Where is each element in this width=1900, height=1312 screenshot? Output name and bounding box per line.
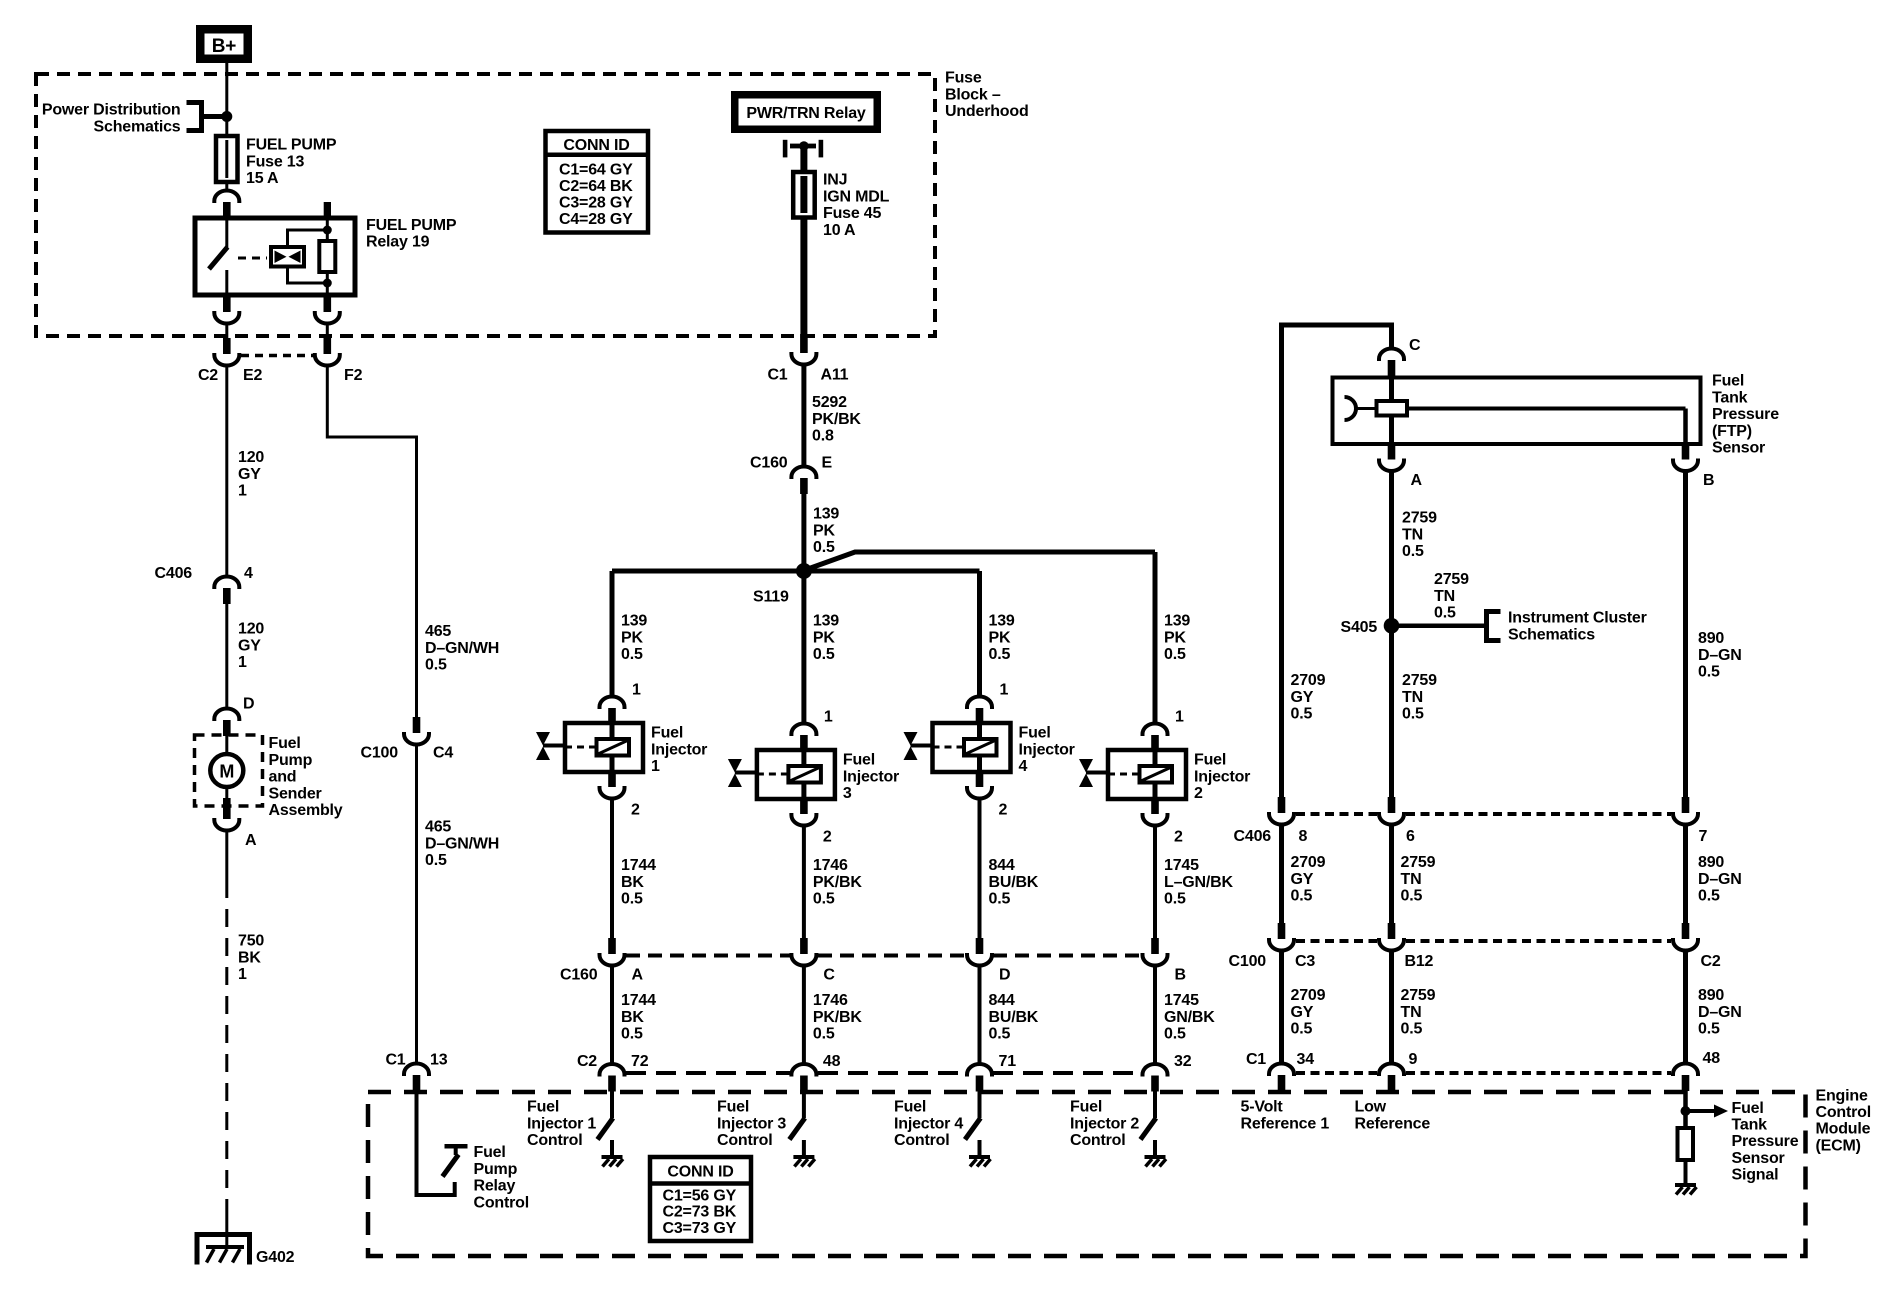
svg-text:72: 72 <box>631 1053 649 1070</box>
wire 5292 PK/BK <box>801 365 806 467</box>
svg-text:Pump: Pump <box>474 1161 518 1178</box>
svg-text:C160: C160 <box>560 967 598 984</box>
svg-text:C100: C100 <box>361 745 399 762</box>
wire 890 D-GN C100 to ECM <box>1683 952 1688 1065</box>
wire 139 PK branch to injector 1 <box>610 571 615 697</box>
fuel pump relay control driver switch <box>445 1144 468 1149</box>
relay B+ stub terminal <box>324 202 331 219</box>
svg-text:C406: C406 <box>1234 828 1272 845</box>
svg-text:0.5: 0.5 <box>989 891 1011 908</box>
battery feed B+ box <box>196 25 252 63</box>
svg-text:D–GN/WH: D–GN/WH <box>425 640 499 657</box>
svg-text:GY: GY <box>1291 871 1314 888</box>
wire 1745 injector 2 to C160 <box>1153 825 1157 938</box>
svg-text:0.5: 0.5 <box>621 891 643 908</box>
svg-text:D–GN: D–GN <box>1698 647 1742 664</box>
svg-text:TN: TN <box>1401 1004 1422 1021</box>
fuel injector 2 control driver inside ECM <box>1153 1091 1157 1118</box>
FTP sensor internal element <box>1345 397 1357 420</box>
wire 465 D-GN/WH segment 2 <box>415 745 418 1062</box>
wire S405 to instrument cluster <box>1392 623 1485 628</box>
svg-text:139: 139 <box>1164 613 1190 630</box>
svg-text:0.5: 0.5 <box>425 657 447 674</box>
svg-text:C2: C2 <box>577 1053 597 1070</box>
svg-text:0.5: 0.5 <box>1434 605 1456 622</box>
svg-text:CONN ID: CONN ID <box>667 1164 733 1181</box>
svg-text:PK: PK <box>989 629 1011 646</box>
connector injector 4 pin 2 <box>976 771 984 787</box>
svg-text:C160: C160 <box>750 455 788 472</box>
svg-text:Sender: Sender <box>269 785 322 802</box>
svg-text:Schematics: Schematics <box>1508 626 1595 643</box>
svg-text:1745: 1745 <box>1164 857 1199 874</box>
connector ECM pin 48 <box>791 1064 816 1077</box>
connector ECM C2 pin 48 <box>1673 1064 1698 1077</box>
svg-text:120: 120 <box>238 621 264 638</box>
svg-text:2759: 2759 <box>1401 854 1436 871</box>
fuel injector 3 <box>801 750 806 799</box>
svg-text:GY: GY <box>1291 689 1314 706</box>
svg-text:C100: C100 <box>1229 953 1267 970</box>
svg-text:B: B <box>1703 472 1714 489</box>
svg-text:1: 1 <box>1175 709 1184 726</box>
svg-text:2759: 2759 <box>1401 987 1436 1004</box>
fuel injector 1 <box>610 723 615 772</box>
wire 1746 C160 to ECM <box>802 966 806 1065</box>
connector injector 3 pin 1 <box>791 724 816 737</box>
svg-text:Fuel: Fuel <box>527 1099 559 1116</box>
svg-text:Pressure: Pressure <box>1712 406 1779 423</box>
connector injector 4 pin 1 <box>967 697 992 710</box>
svg-text:PK: PK <box>813 522 835 539</box>
svg-text:1: 1 <box>238 483 247 500</box>
svg-text:L–GN/BK: L–GN/BK <box>1164 874 1233 891</box>
svg-text:Low: Low <box>1355 1099 1387 1116</box>
ground fuel injector 2 control <box>1145 1155 1166 1159</box>
svg-text:890: 890 <box>1698 854 1724 871</box>
connector injector 1 pin 1 <box>600 697 625 710</box>
wire 1746 injector 3 to C160 <box>802 825 806 938</box>
svg-text:7: 7 <box>1699 828 1708 845</box>
svg-text:Control: Control <box>474 1194 529 1211</box>
wire 2709 GY C406 to C100 <box>1279 826 1284 924</box>
ground fuel injector 1 control <box>602 1155 623 1159</box>
svg-text:Fuel: Fuel <box>894 1099 926 1116</box>
svg-text:Injector: Injector <box>1194 768 1250 785</box>
svg-text:BK: BK <box>238 949 261 966</box>
svg-text:750: 750 <box>238 933 264 950</box>
svg-text:34: 34 <box>1297 1051 1315 1068</box>
fuel injector 3 control driver inside ECM <box>802 1091 806 1118</box>
svg-text:GY: GY <box>238 466 261 483</box>
svg-text:B+: B+ <box>212 36 237 57</box>
svg-text:G402: G402 <box>256 1249 295 1266</box>
svg-text:Injector 2: Injector 2 <box>1070 1115 1139 1132</box>
svg-text:2709: 2709 <box>1291 854 1326 871</box>
svg-text:139: 139 <box>621 613 647 630</box>
svg-text:0.5: 0.5 <box>621 646 643 663</box>
svg-text:6: 6 <box>1406 828 1415 845</box>
svg-text:9: 9 <box>1409 1051 1418 1068</box>
svg-text:3: 3 <box>843 785 852 802</box>
dashed link C160 row <box>626 954 790 958</box>
svg-text:Fuse 13: Fuse 13 <box>246 153 304 170</box>
wire 844 C160 to ECM <box>978 966 982 1065</box>
connector C160 pin D <box>976 938 984 954</box>
svg-text:C3=73 GY: C3=73 GY <box>663 1220 737 1237</box>
svg-text:Engine: Engine <box>1816 1088 1868 1105</box>
svg-text:0.5: 0.5 <box>1164 1026 1186 1043</box>
svg-text:139: 139 <box>989 613 1015 630</box>
svg-text:890: 890 <box>1698 987 1724 1004</box>
connector FTP pin B <box>1682 444 1690 460</box>
svg-text:A: A <box>1411 472 1423 489</box>
svg-text:Reference: Reference <box>1355 1115 1431 1132</box>
svg-text:Power Distribution: Power Distribution <box>42 102 181 119</box>
wire 139 PK branch to injector 3 <box>801 571 806 724</box>
wire B+ to Fuse 13 <box>225 63 228 191</box>
svg-text:Underhood: Underhood <box>945 103 1029 120</box>
fuse F13 FUEL PUMP 15A <box>216 136 238 182</box>
svg-text:4: 4 <box>244 565 253 582</box>
connector C160 pin C <box>800 938 808 954</box>
svg-text:2759: 2759 <box>1434 571 1469 588</box>
svg-text:C406: C406 <box>155 565 193 582</box>
wire 465 D-GN/WH from F2 <box>327 366 416 717</box>
svg-text:PK: PK <box>1164 629 1186 646</box>
svg-text:139: 139 <box>813 506 839 523</box>
connector injector 2 pin 1 <box>1143 724 1168 737</box>
svg-text:5-Volt: 5-Volt <box>1241 1099 1284 1116</box>
svg-text:Fuel: Fuel <box>651 725 683 742</box>
svg-text:0.5: 0.5 <box>1402 543 1424 560</box>
svg-text:Control: Control <box>1070 1132 1125 1149</box>
svg-text:0.5: 0.5 <box>813 646 835 663</box>
connector C2 pin E2 <box>223 338 231 354</box>
connector C1 pin 13 <box>404 1064 429 1077</box>
FTP sensor signal circuit inside ECM <box>1683 1091 1688 1128</box>
wire 2709 GY C100 to ECM <box>1279 952 1284 1065</box>
wire 1744 C160 to ECM <box>610 966 614 1065</box>
fuel injector 2 <box>1153 750 1158 799</box>
svg-text:0.5: 0.5 <box>1402 706 1424 723</box>
svg-text:Injector: Injector <box>1019 741 1075 758</box>
svg-text:GN/BK: GN/BK <box>1164 1009 1215 1026</box>
wire fuel pump relay control inside ECM <box>417 1091 455 1195</box>
wire 120 GY segment 2 <box>225 603 228 708</box>
svg-text:C: C <box>823 967 835 984</box>
svg-text:5292: 5292 <box>812 394 847 411</box>
svg-text:D–GN: D–GN <box>1698 871 1742 888</box>
motor M fuel pump <box>225 736 228 754</box>
svg-text:PK: PK <box>813 629 835 646</box>
bracket to Instrument Cluster Schematics <box>1487 612 1501 641</box>
svg-text:0.5: 0.5 <box>1401 888 1423 905</box>
svg-text:Relay 19: Relay 19 <box>366 234 430 251</box>
svg-text:0.5: 0.5 <box>1698 664 1720 681</box>
connector C160 pin B <box>1151 938 1159 954</box>
wire 844 injector 4 to C160 <box>978 798 982 938</box>
svg-text:48: 48 <box>823 1053 841 1070</box>
dashed link C1 row <box>1296 1071 1377 1075</box>
svg-text:Schematics: Schematics <box>94 118 181 135</box>
connector pin A fuel pump <box>223 798 231 819</box>
svg-text:C3=28 GY: C3=28 GY <box>559 194 633 211</box>
PWR/TRN relay terminal bracket <box>783 140 788 158</box>
svg-text:Injector: Injector <box>651 741 707 758</box>
svg-text:Fuel: Fuel <box>1712 373 1744 390</box>
svg-text:0.5: 0.5 <box>1401 1021 1423 1038</box>
svg-text:1746: 1746 <box>813 992 848 1009</box>
svg-text:F2: F2 <box>344 367 363 384</box>
ground fuel injector 3 control <box>793 1155 814 1159</box>
svg-text:PK/BK: PK/BK <box>812 411 861 428</box>
svg-text:GY: GY <box>1291 1004 1314 1021</box>
wire relay to fuse block edge right <box>326 323 329 340</box>
svg-text:(FTP): (FTP) <box>1712 423 1752 440</box>
junction dot resistor top <box>323 226 332 235</box>
svg-text:844: 844 <box>989 857 1015 874</box>
svg-text:CONN ID: CONN ID <box>563 137 629 154</box>
wire coil to resistor top <box>288 230 328 247</box>
svg-text:Fuel: Fuel <box>843 752 875 769</box>
svg-text:2: 2 <box>823 829 832 846</box>
wire S119 diagonal to injector 2 branch <box>805 552 1155 570</box>
wire 1744 injector 1 to C160 <box>610 798 614 938</box>
svg-text:TN: TN <box>1402 689 1423 706</box>
svg-text:FUEL PUMP: FUEL PUMP <box>246 137 337 154</box>
connector FTP pin C <box>1379 349 1404 362</box>
wire 139 PK trunk <box>801 493 806 571</box>
svg-text:TN: TN <box>1402 526 1423 543</box>
svg-text:IGN MDL: IGN MDL <box>823 188 890 205</box>
svg-text:C4=28 GY: C4=28 GY <box>559 211 633 228</box>
svg-text:0.5: 0.5 <box>1291 1021 1313 1038</box>
svg-text:Control: Control <box>894 1132 949 1149</box>
trunk wire PWR/TRN to C1 A11 <box>800 146 807 338</box>
svg-text:C2=73 BK: C2=73 BK <box>663 1204 737 1221</box>
svg-text:Instrument Cluster: Instrument Cluster <box>1508 610 1647 627</box>
svg-text:2759: 2759 <box>1402 510 1437 527</box>
connector C406 pin 4 left <box>214 577 239 590</box>
svg-text:Reference 1: Reference 1 <box>1241 1115 1330 1132</box>
svg-text:Fuse 45: Fuse 45 <box>823 205 881 222</box>
svg-text:C2: C2 <box>1701 953 1721 970</box>
svg-text:8: 8 <box>1299 828 1308 845</box>
connector pin D fuel pump <box>214 709 239 722</box>
connector ECM pin 72 <box>600 1064 625 1077</box>
svg-text:1: 1 <box>651 758 660 775</box>
svg-text:E: E <box>822 455 833 472</box>
wire 890 D-GN from FTP B <box>1683 471 1688 798</box>
svg-text:C: C <box>1409 337 1421 354</box>
svg-text:0.5: 0.5 <box>813 539 835 556</box>
svg-text:15 A: 15 A <box>246 170 279 187</box>
svg-text:1745: 1745 <box>1164 992 1199 1009</box>
svg-text:465: 465 <box>425 623 451 640</box>
fuel injector 4 <box>977 723 982 772</box>
svg-text:C3: C3 <box>1295 953 1315 970</box>
svg-text:FUEL PUMP: FUEL PUMP <box>366 217 457 234</box>
svg-text:1: 1 <box>1000 682 1009 699</box>
svg-text:Control: Control <box>1816 1104 1871 1121</box>
relay FUEL PUMP Relay 19 box <box>195 218 355 295</box>
svg-text:Sensor: Sensor <box>1712 440 1765 457</box>
svg-text:C4: C4 <box>433 745 453 762</box>
svg-text:D: D <box>999 967 1010 984</box>
svg-text:0.5: 0.5 <box>1164 646 1186 663</box>
resistor FTP pull inside ECM <box>1678 1128 1694 1160</box>
connector ECM C1 pin 34 <box>1269 1064 1294 1077</box>
svg-text:0.5: 0.5 <box>1698 888 1720 905</box>
svg-text:Assembly: Assembly <box>269 802 343 819</box>
connector below Fuse 13 <box>214 191 239 204</box>
svg-text:1744: 1744 <box>621 857 656 874</box>
svg-text:Control: Control <box>527 1132 582 1149</box>
svg-text:1: 1 <box>824 709 833 726</box>
connector ECM pin 32 <box>1143 1064 1168 1077</box>
svg-text:C2=64 BK: C2=64 BK <box>559 178 633 195</box>
svg-text:Tank: Tank <box>1732 1117 1768 1134</box>
svg-text:B12: B12 <box>1405 953 1434 970</box>
svg-text:0.8: 0.8 <box>812 428 834 445</box>
svg-text:48: 48 <box>1703 1050 1721 1067</box>
svg-text:BK: BK <box>621 874 644 891</box>
connector C406 pin 8 <box>1278 797 1286 813</box>
svg-text:S119: S119 <box>753 589 789 606</box>
svg-text:Fuel: Fuel <box>1194 752 1226 769</box>
svg-text:Pump: Pump <box>269 752 313 769</box>
connector injector 2 pin 2 <box>1151 798 1159 814</box>
svg-text:M: M <box>219 762 234 782</box>
splice S405 <box>1384 618 1400 634</box>
connector C100 pin C3 <box>1278 923 1286 939</box>
svg-text:Tank: Tank <box>1712 389 1748 406</box>
svg-text:Fuel: Fuel <box>717 1099 749 1116</box>
svg-text:S405: S405 <box>1341 619 1378 636</box>
connector ECM pin 71 <box>967 1064 992 1077</box>
wire 750 BK solid part <box>225 831 228 880</box>
svg-text:BU/BK: BU/BK <box>989 1009 1039 1026</box>
svg-text:2709: 2709 <box>1291 672 1326 689</box>
svg-text:2709: 2709 <box>1291 987 1326 1004</box>
wire 139 PK branch to injector 4 <box>977 571 982 697</box>
svg-text:32: 32 <box>1174 1053 1192 1070</box>
svg-text:TN: TN <box>1434 588 1455 605</box>
connector injector 3 pin 2 <box>800 798 808 814</box>
bracket to Power Distribution Schematics <box>187 103 202 131</box>
svg-text:1: 1 <box>238 654 247 671</box>
relay lower connector right <box>324 295 332 311</box>
svg-text:TN: TN <box>1401 871 1422 888</box>
svg-text:A: A <box>632 967 644 984</box>
svg-text:4: 4 <box>1019 758 1028 775</box>
svg-text:PWR/TRN Relay: PWR/TRN Relay <box>746 105 865 122</box>
relay switch contact <box>225 218 228 248</box>
ground FTP signal <box>1675 1183 1696 1187</box>
svg-text:Block –: Block – <box>945 86 1001 103</box>
svg-text:2: 2 <box>999 802 1008 819</box>
svg-text:0.5: 0.5 <box>813 891 835 908</box>
fuse F45 INJ IGN MDL 10A <box>793 172 815 218</box>
fuse block underhood dashed box <box>36 74 935 336</box>
connector C160 pin A <box>608 938 616 954</box>
svg-text:0.5: 0.5 <box>989 646 1011 663</box>
svg-text:0.5: 0.5 <box>1291 888 1313 905</box>
svg-text:120: 120 <box>238 449 264 466</box>
svg-text:1746: 1746 <box>813 857 848 874</box>
svg-text:0.5: 0.5 <box>1164 891 1186 908</box>
junction dot at power distribution tap <box>221 111 232 122</box>
svg-text:1744: 1744 <box>621 992 656 1009</box>
wire 750 BK dashed part <box>225 880 228 1212</box>
svg-text:465: 465 <box>425 819 451 836</box>
svg-text:D–GN/WH: D–GN/WH <box>425 835 499 852</box>
svg-text:0.5: 0.5 <box>425 852 447 869</box>
svg-text:Signal: Signal <box>1732 1166 1779 1183</box>
svg-text:13: 13 <box>430 1052 448 1069</box>
connector ECM pin 9 <box>1379 1064 1404 1077</box>
svg-text:BU/BK: BU/BK <box>989 874 1039 891</box>
splice S119 <box>796 563 812 579</box>
connector C100 pin B12 <box>1388 923 1396 939</box>
svg-text:D: D <box>243 696 254 713</box>
connector injector 1 pin 2 <box>608 771 616 787</box>
wire 2759 TN from FTP A <box>1389 471 1394 798</box>
junction dot resistor bottom <box>323 279 332 288</box>
wire 890 D-GN C406 to C100 <box>1683 826 1688 924</box>
svg-text:E2: E2 <box>243 367 262 384</box>
wire coil to resistor bottom <box>288 267 328 284</box>
svg-text:PK/BK: PK/BK <box>813 1009 862 1026</box>
wire 139 PK branch to injector 2 <box>1153 552 1158 724</box>
svg-text:Control: Control <box>717 1132 772 1149</box>
svg-text:Fuel: Fuel <box>1732 1100 1764 1117</box>
wire 1745 C160 to ECM <box>1153 966 1157 1065</box>
wire 2759 TN C406 to C100 <box>1389 826 1394 924</box>
svg-text:C2: C2 <box>198 367 218 384</box>
svg-text:0.5: 0.5 <box>813 1026 835 1043</box>
svg-text:C1: C1 <box>385 1052 405 1069</box>
svg-text:2: 2 <box>631 802 640 819</box>
svg-text:Relay: Relay <box>474 1178 516 1195</box>
svg-text:Fuel: Fuel <box>269 735 301 752</box>
svg-text:PK/BK: PK/BK <box>813 874 862 891</box>
ground fuel injector 4 control <box>969 1155 990 1159</box>
engine control module ECM dashed box <box>368 1092 1806 1256</box>
svg-text:C1: C1 <box>767 367 787 384</box>
svg-text:71: 71 <box>999 1053 1017 1070</box>
relay resistor <box>326 218 329 241</box>
svg-text:Fuel: Fuel <box>474 1144 506 1161</box>
relay lower connector left <box>223 295 231 311</box>
svg-text:B: B <box>1175 967 1186 984</box>
CONN ID table ECM <box>650 1157 751 1241</box>
svg-text:1: 1 <box>238 966 247 983</box>
svg-text:Fuel: Fuel <box>1019 725 1051 742</box>
svg-text:Injector 1: Injector 1 <box>527 1115 596 1132</box>
svg-text:INJ: INJ <box>823 172 847 189</box>
dashed link C406 row <box>1296 812 1377 816</box>
svg-text:0.5: 0.5 <box>1291 706 1313 723</box>
wire S119 horizontal branch <box>612 569 980 574</box>
svg-text:0.5: 0.5 <box>621 1026 643 1043</box>
dashed link ECM row <box>626 1071 790 1075</box>
svg-text:C1=64 GY: C1=64 GY <box>559 162 633 179</box>
svg-text:PK: PK <box>621 629 643 646</box>
svg-text:BK: BK <box>621 1009 644 1026</box>
svg-text:GY: GY <box>238 637 261 654</box>
